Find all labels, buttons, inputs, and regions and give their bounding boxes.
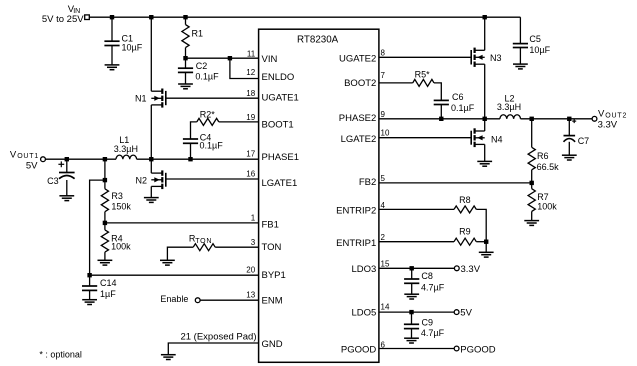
svg-text:R2*: R2*	[200, 109, 216, 119]
svg-text:R6: R6	[537, 151, 549, 161]
C3 plus polarity mark	[58, 161, 64, 167]
node VIN input terminal	[85, 15, 90, 20]
svg-text:1µF: 1µF	[100, 289, 116, 299]
IC U1 RT8230A body	[259, 29, 379, 362]
VOUT1 terminal label	[10, 150, 39, 161]
svg-text:FB2: FB2	[359, 177, 376, 188]
svg-text:ENM: ENM	[262, 295, 283, 306]
svg-text:BYP1: BYP1	[262, 270, 286, 281]
svg-text:11: 11	[247, 50, 256, 59]
svg-text:5V: 5V	[26, 160, 38, 171]
transistor N2	[151, 170, 166, 189]
svg-text:V: V	[598, 108, 605, 119]
wire PGOOD pin 6 to terminal	[379, 348, 454, 350]
C14 value label	[100, 278, 117, 299]
svg-text:ENTRIP1: ENTRIP1	[336, 238, 376, 249]
junction PHASE2-N4	[483, 117, 487, 121]
wire GND pin to ground	[168, 343, 258, 355]
capacitor C6	[434, 100, 449, 118]
svg-text:GND: GND	[262, 339, 283, 350]
ground C7	[562, 155, 577, 160]
transistor N1	[151, 89, 166, 108]
svg-text:0.1µF: 0.1µF	[200, 140, 224, 150]
svg-text:3.3µH: 3.3µH	[497, 102, 521, 112]
resistor R5	[379, 79, 441, 100]
junction rail-N3 drain	[483, 15, 487, 19]
svg-text:2: 2	[381, 233, 386, 242]
svg-text:5: 5	[381, 174, 386, 183]
wire N2 drain from PHASE1	[150, 159, 152, 173]
svg-text:8: 8	[381, 49, 386, 58]
wire L2 to VOUT2	[521, 118, 593, 120]
ground C3	[59, 196, 74, 201]
resistor RTON	[167, 244, 258, 261]
junction R8-R9-ground	[484, 240, 488, 244]
svg-text:9: 9	[381, 110, 386, 119]
wire N3 source to PHASE2	[484, 64, 486, 119]
wire Enable to pin 13 ENM	[200, 299, 259, 301]
resistor R8	[379, 206, 486, 242]
C6 value label	[451, 92, 475, 113]
junction C6-PHASE2	[439, 117, 443, 121]
R3 value label	[111, 191, 131, 211]
transistor N4	[471, 128, 485, 147]
svg-text:0.1µF: 0.1µF	[195, 71, 219, 81]
junction C4-PHASE1	[188, 157, 192, 161]
wire VOUT1 to L1	[45, 158, 116, 160]
svg-text:18: 18	[246, 89, 255, 98]
C9 value label	[421, 317, 445, 338]
junction R1-C2	[183, 56, 187, 60]
resistor R2	[191, 118, 259, 139]
svg-text:LDO5: LDO5	[351, 308, 376, 319]
wire N2 source to ground	[150, 186, 152, 197]
svg-text:3.3V: 3.3V	[598, 120, 618, 131]
node PGOOD terminal	[454, 346, 459, 351]
svg-text:N2: N2	[135, 176, 147, 186]
junction LDO5-C9	[409, 310, 413, 314]
svg-text:0.1µF: 0.1µF	[451, 103, 475, 113]
R7 value label	[537, 192, 557, 212]
node 5V terminal	[454, 310, 459, 315]
svg-text:R3: R3	[111, 191, 123, 201]
resistor R9	[379, 238, 486, 245]
wire pin 18 UGATE1 to N1 gate	[166, 97, 259, 99]
R6 value label	[537, 151, 560, 172]
svg-text:UGATE1: UGATE1	[262, 92, 299, 103]
junction LDO3-C8	[410, 266, 414, 270]
svg-text:VIN: VIN	[262, 54, 278, 65]
svg-text:150k: 150k	[111, 202, 131, 212]
junction rail-N1 drain	[149, 15, 153, 19]
svg-text:15: 15	[381, 259, 390, 268]
svg-text:6: 6	[381, 340, 386, 349]
svg-text:PGOOD: PGOOD	[341, 344, 377, 355]
svg-text:R1: R1	[192, 29, 204, 39]
wire N4 drain from PHASE2	[484, 119, 486, 131]
ground R7	[524, 221, 539, 226]
capacitor C14	[82, 275, 97, 300]
svg-text:C9: C9	[422, 317, 434, 327]
resistor R6	[528, 119, 535, 183]
VIN terminal label	[68, 4, 80, 15]
svg-text:4.7µF: 4.7µF	[421, 328, 445, 338]
wire LDO3 pin 15 to 3.3V	[379, 267, 455, 269]
wire LDO5 pin 14 to 5V	[379, 311, 454, 313]
svg-text:R9: R9	[459, 227, 471, 237]
svg-text:10: 10	[381, 129, 390, 138]
capacitor C9	[404, 312, 419, 338]
svg-text:N4: N4	[491, 134, 503, 144]
resistor R7	[528, 183, 535, 221]
wire R1/C2 junction to pin 11 VIN	[186, 57, 259, 59]
C2 value label	[195, 61, 219, 82]
junction VOUT1-R3	[103, 157, 107, 161]
wire BYP1 branch	[90, 180, 259, 275]
node VOUT1 output terminal	[41, 157, 46, 162]
C7 plus polarity mark	[572, 119, 576, 123]
svg-text:R5*: R5*	[415, 70, 431, 80]
C8 value label	[421, 271, 445, 293]
svg-text:R8: R8	[459, 195, 471, 205]
svg-text:OUT2: OUT2	[605, 112, 627, 119]
junction VOUT2-C7	[567, 117, 571, 121]
C1 value label	[122, 34, 143, 53]
svg-text:100k: 100k	[537, 202, 557, 212]
wire R9 junction to ground	[485, 242, 487, 253]
svg-text:C7: C7	[578, 136, 590, 146]
svg-text:* : optional: * : optional	[39, 350, 82, 360]
junction VOUT1-C3	[65, 157, 69, 161]
svg-text:RT8230A: RT8230A	[297, 34, 339, 45]
svg-text:C14: C14	[100, 278, 117, 288]
svg-text:BOOT2: BOOT2	[344, 78, 376, 89]
svg-text:PGOOD: PGOOD	[460, 344, 496, 355]
capacitor C2	[178, 58, 193, 84]
svg-text:FB1: FB1	[262, 220, 279, 231]
capacitor C1	[104, 17, 119, 65]
svg-text:LGATE1: LGATE1	[262, 178, 298, 189]
svg-text:3: 3	[251, 238, 256, 247]
svg-text:PHASE2: PHASE2	[339, 113, 377, 124]
svg-text:14: 14	[381, 303, 390, 312]
ground C1	[105, 65, 120, 70]
svg-text:5V: 5V	[460, 308, 472, 319]
svg-text:10µF: 10µF	[122, 42, 143, 52]
L1 label	[114, 135, 138, 154]
svg-text:100k: 100k	[111, 242, 131, 252]
junction rail-R1	[183, 15, 187, 19]
transistor N3	[471, 48, 485, 67]
capacitor C3	[59, 159, 75, 196]
svg-text:3.3µH: 3.3µH	[114, 144, 138, 154]
svg-text:V: V	[10, 150, 17, 161]
svg-text:21 (Exposed Pad): 21 (Exposed Pad)	[180, 332, 256, 343]
svg-text:17: 17	[246, 150, 255, 159]
svg-text:TON: TON	[195, 238, 212, 245]
wire FB2 pin 5 to R6/R7	[379, 182, 532, 184]
svg-text:C2: C2	[196, 61, 208, 71]
junction R3-BYP branch	[103, 178, 107, 182]
ground N2	[144, 198, 159, 203]
wire pin 10 LGATE2 to N4 gate	[379, 137, 471, 139]
capacitor C7	[564, 119, 576, 155]
svg-text:4.7µF: 4.7µF	[421, 283, 445, 293]
wire pin 16 LGATE1 to N2 gate	[166, 178, 259, 180]
svg-text:3.3V: 3.3V	[461, 264, 481, 275]
wire N4 source to ground	[484, 144, 486, 161]
svg-text:TON: TON	[262, 242, 282, 253]
junction R3-FB1	[103, 221, 107, 225]
svg-text:C6: C6	[452, 92, 464, 102]
svg-text:66.5k: 66.5k	[537, 162, 560, 172]
svg-text:Enable: Enable	[160, 294, 188, 304]
svg-text:ENLDO: ENLDO	[262, 72, 295, 83]
svg-text:BOOT1: BOOT1	[262, 120, 294, 131]
svg-text:R7: R7	[537, 192, 549, 202]
ground R8 R9	[479, 252, 494, 257]
wire FB1 to pin 1	[105, 222, 259, 224]
wire N3 drain from rail	[484, 17, 486, 50]
svg-text:19: 19	[246, 113, 255, 122]
svg-text:C5: C5	[529, 34, 541, 44]
ground C9	[404, 338, 419, 343]
svg-text:13: 13	[246, 291, 255, 300]
C4 value label	[200, 133, 224, 151]
svg-text:16: 16	[246, 169, 255, 178]
wire L1 to PHASE1 pin 17	[137, 158, 259, 160]
junction FB2-R6-R7	[530, 181, 534, 185]
node 3.3V terminal	[454, 266, 459, 271]
wire pin 8 UGATE2 to N3 gate	[379, 56, 471, 58]
junction ENLDO stub	[228, 56, 232, 60]
junction BYP1-C14	[87, 273, 91, 277]
svg-text:7: 7	[381, 71, 386, 80]
wire ENLDO stub	[230, 58, 259, 78]
R4 value label	[111, 234, 131, 252]
capacitor C8	[404, 268, 419, 294]
svg-text:LGATE2: LGATE2	[341, 134, 377, 145]
resistor R3	[101, 159, 108, 223]
svg-text:LDO3: LDO3	[351, 264, 376, 275]
L2 label	[497, 93, 521, 112]
ground N4	[477, 161, 492, 166]
wire PHASE2 pin 9 to L2	[379, 118, 500, 120]
svg-text:1: 1	[251, 214, 256, 223]
capacitor C4	[183, 139, 198, 159]
svg-text:OUT1: OUT1	[17, 153, 39, 160]
svg-text:UGATE2: UGATE2	[339, 54, 376, 65]
resistor R1	[182, 17, 189, 58]
svg-text:N1: N1	[135, 93, 147, 103]
wire N1 source to PHASE1	[150, 105, 152, 159]
ground C2	[178, 84, 193, 89]
node Enable terminal	[195, 298, 200, 303]
inductor L1	[116, 155, 137, 159]
node VOUT2 output terminal	[592, 116, 597, 121]
ground RTON	[160, 260, 175, 265]
svg-text:C8: C8	[421, 271, 433, 281]
wire VIN rail	[89, 16, 520, 18]
svg-text:4: 4	[381, 201, 386, 210]
svg-text:5V to 25V: 5V to 25V	[42, 14, 84, 25]
ground GND pin	[161, 355, 176, 360]
capacitor C5	[513, 17, 528, 64]
wire N1 drain from rail	[150, 17, 152, 91]
svg-text:C3: C3	[47, 176, 59, 186]
svg-text:ENTRIP2: ENTRIP2	[336, 206, 376, 217]
svg-text:N3: N3	[490, 53, 502, 63]
svg-text:12: 12	[246, 68, 255, 77]
junction rail-C1	[110, 15, 114, 19]
ground C8	[404, 294, 419, 299]
C5 value label	[529, 34, 550, 55]
resistor R4	[101, 223, 108, 260]
svg-text:20: 20	[246, 266, 255, 275]
junction PHASE2-R6	[530, 117, 534, 121]
VOUT2 terminal label	[598, 108, 627, 119]
RTON label	[189, 233, 212, 245]
ground R4	[98, 260, 113, 265]
ground C14	[82, 300, 97, 305]
inductor L2	[500, 115, 521, 119]
svg-text:PHASE1: PHASE1	[262, 152, 300, 163]
ground C5	[513, 64, 528, 69]
svg-text:10µF: 10µF	[529, 45, 550, 55]
junction PHASE1-N2	[149, 157, 153, 161]
